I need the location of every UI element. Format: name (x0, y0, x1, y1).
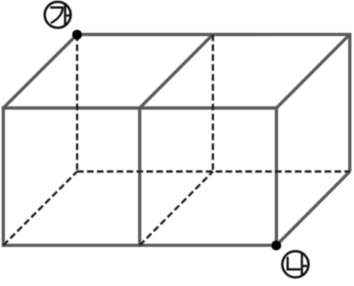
wire top-middle depth edge (140, 35, 213, 109)
wire hidden back-left vertical edge (dashed) (76, 35, 78, 172)
wire bottom-right depth edge (276, 172, 349, 246)
wire front-bottom edge (2, 244, 277, 247)
label GA circle (45, 2, 71, 28)
wire top-left depth edge (3, 35, 77, 109)
wire hidden bottom-left depth edge (dashed) (3, 172, 77, 246)
wire back-top edge (77, 33, 351, 36)
wire hidden bottom-middle depth edge (dashed) (140, 172, 213, 246)
wire hidden back-middle vertical edge (dashed) (212, 35, 214, 172)
wire front-right vertical edge (275, 107, 278, 247)
label GA glyph (Korean GA) (50, 4, 70, 26)
wire back-right vertical edge (348, 33, 351, 172)
wire front-middle vertical edge (138, 108, 141, 245)
node point GA (vertex dot at back-top-left) (72, 30, 82, 40)
label NA circle (282, 251, 308, 277)
wire hidden back-bottom edge (dashed) (77, 170, 350, 172)
node point NA (vertex dot at front-bottom-right) (271, 240, 281, 250)
wire top-right depth edge (276, 34, 349, 108)
wire front-top edge (2, 106, 277, 109)
wire front-left vertical edge (2, 107, 5, 247)
label NA glyph (Korean NA) (288, 253, 307, 276)
